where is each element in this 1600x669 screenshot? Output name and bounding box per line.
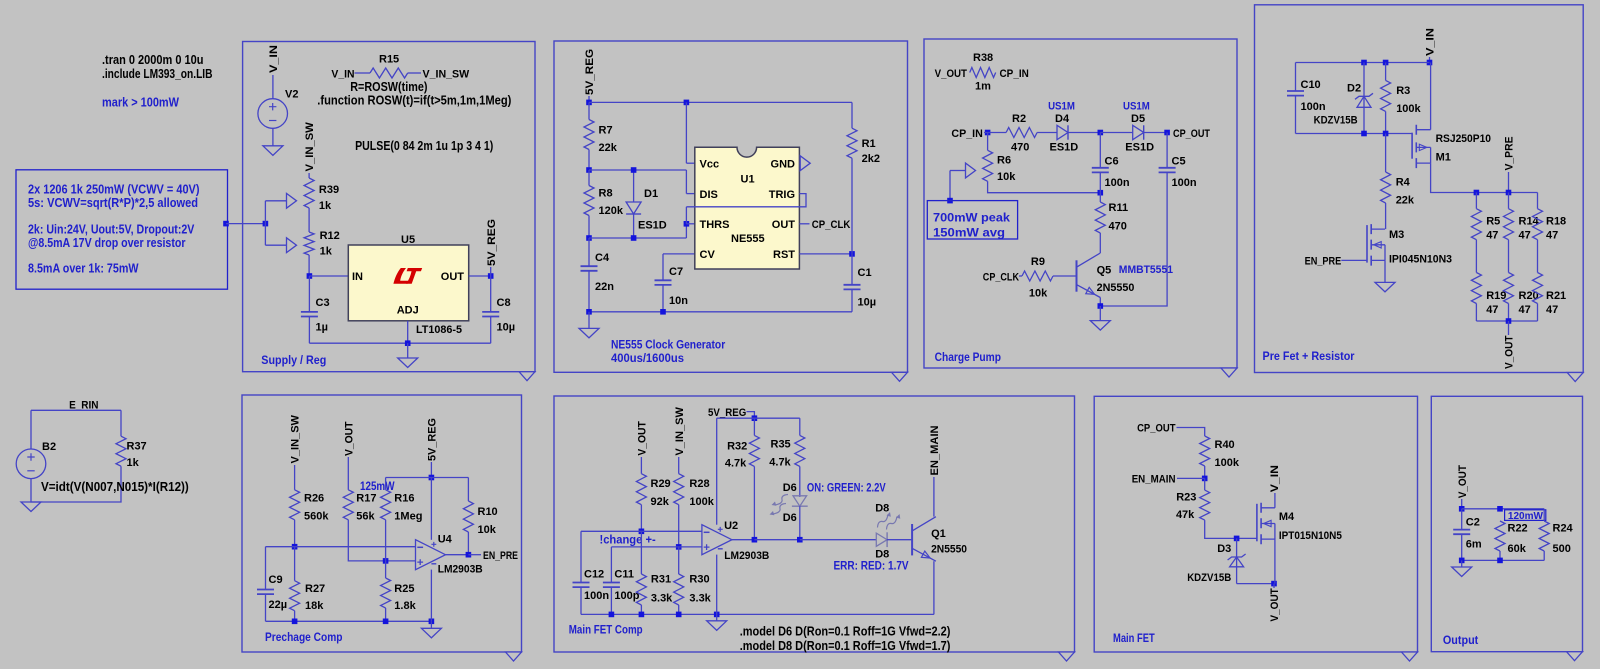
node ground rail (586, 309, 592, 315)
wire U4 vplus (430, 478, 432, 540)
wire (1461, 499, 1463, 509)
node U4 vminus (429, 619, 435, 625)
junction R32 bottom (752, 537, 758, 543)
wire U2 vplus (716, 418, 718, 525)
note box resistor rating (16, 170, 228, 289)
svg-text:8.5mA over 1k: 75mW: 8.5mA over 1k: 75mW (28, 262, 139, 276)
wire E_RIN top (31, 409, 121, 411)
wire (588, 96, 590, 102)
resistor R1 (847, 102, 880, 165)
section box Pre Fet + Resistor (1255, 5, 1584, 373)
capacitor C8 (482, 297, 515, 334)
svg-text:100k: 100k (1215, 457, 1240, 469)
svg-text:V_IN: V_IN (331, 69, 354, 81)
svg-text:R8: R8 (599, 188, 613, 200)
junction D1 cathode (631, 235, 637, 241)
svg-text:100n: 100n (1172, 177, 1197, 189)
wire (685, 224, 687, 238)
svg-text:KDZV15B: KDZV15B (1187, 572, 1231, 584)
zener diode D3 KDZV15B (1187, 538, 1245, 584)
svg-text:D6: D6 (783, 512, 797, 524)
section box Charge Pump (924, 39, 1237, 368)
wire (430, 621, 432, 628)
wire (1177, 428, 1205, 437)
wire (663, 253, 695, 255)
wire (640, 457, 642, 474)
wire (1508, 172, 1510, 193)
svg-text:R17: R17 (356, 493, 376, 505)
wire ADJ to ground rail (407, 321, 409, 343)
svg-text:@8.5mA 17V drop over resistor: @8.5mA 17V drop over resistor (28, 236, 186, 250)
voltage source B2 (16, 449, 46, 479)
svg-text:MMBT5551: MMBT5551 (1119, 264, 1173, 276)
svg-text:47: 47 (1519, 304, 1531, 316)
wire (294, 547, 296, 581)
svg-text:US1M: US1M (1123, 101, 1150, 113)
svg-text:V_IN: V_IN (268, 45, 280, 73)
svg-text:500: 500 (1553, 543, 1571, 555)
svg-text:R27: R27 (305, 583, 325, 595)
svg-text:V_IN_SW: V_IN_SW (290, 414, 302, 463)
junction C11 bottom (609, 612, 615, 618)
svg-text:R2: R2 (1012, 113, 1026, 125)
svg-text:R16: R16 (394, 493, 414, 505)
svg-text:4.7k: 4.7k (725, 458, 747, 470)
ground (579, 328, 599, 338)
wire (580, 531, 582, 582)
wire (984, 132, 1006, 134)
svg-text:CV: CV (700, 249, 716, 261)
svg-text:R12: R12 (320, 230, 340, 242)
resistor R30 (674, 547, 712, 605)
wire (308, 208, 310, 232)
wire top rail output (1462, 508, 1545, 510)
svg-text:R6: R6 (997, 155, 1011, 167)
resistor R24 (1539, 509, 1573, 555)
node Q5 emitter (1098, 303, 1104, 309)
wire (799, 418, 801, 435)
svg-text:V_IN_SW: V_IN_SW (674, 406, 686, 455)
wire (467, 532, 469, 555)
svg-text:1Meg: 1Meg (394, 511, 422, 523)
wire (950, 170, 966, 172)
wire THRS pin stub (686, 223, 694, 225)
svg-text:R25: R25 (394, 583, 414, 595)
svg-text:.model D8 D(Ron=0.1 Roff=1G Vf: .model D8 D(Ron=0.1 Roff=1G Vfwd=1.7) (740, 639, 951, 653)
resistor R22 (1495, 521, 1528, 555)
svg-text:5V_REG: 5V_REG (427, 418, 439, 461)
svg-text:R4: R4 (1396, 177, 1411, 189)
svg-text:C9: C9 (269, 574, 283, 586)
junction R22 bottom (1497, 558, 1503, 564)
svg-text:22µ: 22µ (269, 599, 288, 611)
resistor R40 (1200, 436, 1240, 469)
junction D2 top (1361, 60, 1367, 66)
node note-box tap (223, 221, 229, 227)
capacitor C5 (1159, 133, 1197, 190)
node ADJ ground (405, 340, 411, 346)
junction R5 top (1474, 190, 1480, 196)
capacitor C7 (655, 254, 695, 307)
resistor R25 (381, 561, 417, 612)
wire U2 out (732, 539, 755, 541)
capacitor C4 (581, 238, 615, 293)
svg-text:R28: R28 (689, 478, 709, 490)
section box Output (1431, 396, 1582, 651)
svg-text:Main FET Comp: Main FET Comp (569, 625, 643, 637)
svg-text:22k: 22k (1396, 195, 1415, 207)
wire (1205, 520, 1257, 538)
svg-text:ON: GREEN: 2.2V: ON: GREEN: 2.2V (807, 483, 886, 495)
wire (949, 171, 951, 201)
node plus U2 (676, 544, 682, 550)
LED D6 (770, 482, 808, 524)
svg-text:TRIG: TRIG (769, 189, 795, 201)
svg-text:1m: 1m (975, 81, 991, 93)
node V_IN rail (1427, 60, 1433, 66)
svg-text:D4: D4 (1055, 113, 1070, 125)
wire (294, 611, 296, 622)
mosfet M4 IPT015N10N5 (1257, 503, 1342, 545)
svg-text:U4: U4 (438, 534, 453, 546)
wire M4 source down (1274, 538, 1276, 583)
ground (263, 146, 283, 156)
wire (1537, 304, 1539, 322)
wire (588, 102, 590, 119)
svg-text:R37: R37 (127, 441, 147, 453)
ground (421, 628, 441, 638)
wire (309, 342, 490, 344)
wire (1385, 63, 1387, 81)
wire plus row U2 (611, 546, 702, 548)
node 5V rail (752, 415, 758, 421)
svg-text:R5: R5 (1486, 216, 1500, 228)
resistor R28 (674, 474, 715, 508)
svg-text:mark > 100mW: mark > 100mW (102, 96, 179, 110)
voltage source V2 (258, 99, 288, 129)
capacitor C11 (603, 547, 640, 602)
note box 700mW peak (927, 201, 1017, 239)
wire (1508, 321, 1510, 335)
svg-text:V_OUT: V_OUT (1457, 465, 1469, 499)
svg-text:47: 47 (1546, 230, 1558, 242)
resistor R26 (290, 490, 330, 523)
svg-text:10k: 10k (1029, 288, 1048, 300)
transistor Q5 2N5550 (1077, 253, 1135, 298)
wire Vcc pin stub (686, 162, 694, 164)
svg-text:R24: R24 (1553, 523, 1574, 535)
node top rail left (586, 100, 592, 106)
svg-text:47k: 47k (1176, 509, 1195, 521)
wire (1475, 193, 1477, 209)
svg-text:C4: C4 (595, 252, 610, 264)
wire (588, 271, 590, 312)
svg-text:R9: R9 (1031, 256, 1045, 268)
svg-text:D5: D5 (1131, 113, 1145, 125)
svg-text:10µ: 10µ (858, 297, 877, 309)
svg-text:V_OUT: V_OUT (343, 421, 355, 456)
wire 5V rail (717, 417, 800, 419)
svg-text:NE555: NE555 (731, 233, 765, 245)
svg-text:V_IN: V_IN (1269, 465, 1281, 492)
svg-text:V_OUT: V_OUT (935, 68, 968, 80)
wire to Vcc (685, 102, 687, 163)
svg-text:2N5550: 2N5550 (1097, 282, 1135, 294)
node R1/C1 (849, 251, 855, 257)
port flag at R6 (966, 163, 976, 178)
wire (1385, 111, 1387, 133)
svg-text:LM2903B: LM2903B (724, 550, 769, 562)
svg-text:C2: C2 (1466, 516, 1480, 528)
wire (272, 75, 274, 99)
svg-text:400us/1600us: 400us/1600us (611, 353, 684, 365)
svg-text:D2: D2 (1347, 83, 1361, 95)
svg-text:120k: 120k (599, 205, 624, 217)
node V_OUT rail (1459, 506, 1465, 512)
wire (1475, 240, 1477, 273)
svg-text:.function ROSW(t)=if(t>5m,1m,1: .function ROSW(t)=if(t>5m,1m,1Meg) (317, 94, 511, 108)
LT logo (393, 268, 408, 284)
wire bottom return (31, 466, 121, 502)
wire (1204, 478, 1206, 490)
wire (588, 216, 590, 239)
transistor Q1 2N5550 (912, 517, 967, 562)
wire (1100, 172, 1167, 306)
svg-text:CP_OUT: CP_OUT (1137, 423, 1176, 435)
svg-text:10n: 10n (669, 295, 688, 307)
wire (800, 539, 877, 541)
wire (1295, 63, 1297, 92)
svg-text:IPT015N10N5: IPT015N10N5 (1279, 530, 1342, 542)
svg-text:PULSE(0 84 2m 1u 1p 3 4 1): PULSE(0 84 2m 1u 1p 3 4 1) (355, 139, 493, 153)
wire (753, 418, 755, 435)
svg-text:EN_PRE: EN_PRE (483, 550, 518, 562)
wire (1475, 304, 1477, 322)
svg-text:R11: R11 (1109, 202, 1129, 214)
wire (640, 505, 642, 532)
section box Prechage Comp (242, 395, 522, 652)
svg-text:C8: C8 (497, 297, 511, 309)
wire (588, 312, 590, 329)
wire M3 source down (1384, 260, 1386, 282)
resistor R17 (343, 490, 376, 523)
capacitor C12 (573, 531, 610, 602)
svg-text:V=idt(V(N007,N015)*I(R12)): V=idt(V(N007,N015)*I(R12)) (41, 480, 189, 494)
svg-text:OUT: OUT (772, 219, 796, 231)
capacitor C3 (301, 297, 330, 334)
wire R9 to base (1053, 275, 1077, 277)
wire ground rail (266, 620, 432, 622)
svg-text:R15: R15 (379, 54, 399, 66)
resistor R27 (290, 547, 326, 612)
svg-text:DIS: DIS (700, 189, 718, 201)
wire (1537, 193, 1539, 209)
wire (1237, 583, 1274, 585)
wire plus row (348, 520, 415, 561)
wire (308, 173, 310, 178)
ground (1090, 321, 1110, 331)
wire (588, 170, 590, 186)
svg-text:5V_REG: 5V_REG (584, 49, 596, 95)
svg-text:Prechage Comp: Prechage Comp (265, 632, 343, 644)
junction (263, 221, 269, 227)
wire Q1 emitter (933, 561, 935, 614)
wire (1295, 96, 1297, 134)
svg-text:Supply / Reg: Supply / Reg (261, 355, 326, 367)
svg-text:B2: B2 (42, 441, 56, 453)
wire (308, 317, 310, 344)
svg-text:IPI045N10N3: IPI045N10N3 (1389, 254, 1452, 266)
wire (264, 201, 266, 245)
svg-text:ES1D: ES1D (1050, 142, 1079, 154)
junction D6 bottom (797, 537, 803, 543)
wire (589, 237, 686, 239)
node minus U2 (639, 529, 645, 535)
junction R3 top (1383, 60, 1389, 66)
wire (589, 169, 686, 171)
resistor R16 (381, 478, 423, 523)
node minus input (292, 544, 298, 550)
svg-text:Output: Output (1443, 635, 1479, 647)
port flag upper (287, 193, 297, 208)
wire (490, 317, 492, 344)
svg-text:100n: 100n (1105, 177, 1130, 189)
wire (851, 102, 853, 128)
wire (678, 457, 680, 474)
ground (1375, 282, 1395, 292)
svg-text:2x 1206 1k 250mW (VCWV = 40V): 2x 1206 1k 250mW (VCWV = 40V) (28, 183, 200, 197)
svg-text:ES1D: ES1D (638, 220, 667, 232)
wire to DIS (685, 170, 687, 194)
svg-text:V_IN_SW: V_IN_SW (304, 122, 316, 172)
resistor R15 (355, 54, 422, 79)
wire (294, 465, 296, 490)
resistor R5 (1471, 193, 1500, 242)
wire (678, 547, 680, 574)
wire (430, 462, 432, 478)
svg-text:R38: R38 (973, 52, 993, 64)
svg-text:Charge Pump: Charge Pump (935, 352, 1001, 364)
svg-text:CP_OUT: CP_OUT (1173, 128, 1210, 140)
resistor R38 (970, 52, 996, 93)
svg-text:1k: 1k (319, 200, 332, 212)
node V_PRE (1506, 190, 1512, 196)
wire (851, 158, 853, 254)
op-amp U4 LM2903B (416, 534, 483, 576)
resistor R9 (1022, 256, 1053, 300)
node U2 ground (714, 612, 720, 618)
svg-text:R29: R29 (651, 478, 671, 490)
wire (747, 412, 755, 419)
diode D1 ES1D (626, 170, 667, 238)
svg-text:R23: R23 (1176, 492, 1196, 504)
capacitor C1 (844, 254, 877, 309)
capacitor C2 (1453, 509, 1482, 551)
wire (490, 267, 492, 276)
wire (1508, 193, 1510, 209)
wire minus row U2 (581, 530, 702, 532)
svg-text:470: 470 (1011, 142, 1029, 154)
svg-text:R19: R19 (1486, 290, 1506, 302)
svg-text:470: 470 (1109, 221, 1127, 233)
svg-text:D1: D1 (644, 188, 658, 200)
wire (1429, 57, 1431, 63)
node V_OUT array (1506, 318, 1512, 324)
wire (1099, 306, 1101, 321)
wire U2 vminus (716, 555, 718, 615)
wire EN_PRE to gate (1341, 259, 1367, 261)
svg-text:1µ: 1µ (316, 322, 328, 334)
wire 5V tap rail (386, 477, 469, 479)
svg-text:R35: R35 (771, 439, 791, 451)
wire (1543, 551, 1545, 560)
resistor R21 (1533, 273, 1567, 317)
wire bottom rail output (1462, 559, 1545, 561)
resistor R11 (1095, 193, 1128, 233)
svg-text:M3: M3 (1389, 229, 1404, 241)
wire TRIG loop (686, 194, 806, 207)
wire (716, 614, 718, 620)
svg-text:700mW peak: 700mW peak (933, 211, 1010, 225)
port flag lower (287, 238, 297, 253)
svg-text:U5: U5 (401, 234, 415, 246)
svg-text:M4: M4 (1279, 511, 1295, 523)
svg-text:R14: R14 (1519, 216, 1540, 228)
wire array top rail (1476, 192, 1537, 194)
svg-text:ADJ: ADJ (397, 305, 419, 317)
junction D2 bottom (1361, 131, 1367, 137)
wire gate rail (1296, 133, 1413, 135)
wire (851, 254, 853, 285)
svg-text:100n: 100n (1301, 101, 1326, 113)
wire (588, 150, 590, 171)
wire array bottom rail (1476, 320, 1537, 322)
svg-text:V_IN: V_IN (1425, 28, 1437, 56)
svg-text:ES1D: ES1D (1125, 142, 1154, 154)
timer U1 NE555 (695, 147, 800, 269)
svg-text:LM2903B: LM2903B (438, 564, 483, 576)
wire M1 source to V_IN (1430, 63, 1432, 130)
svg-text:RSJ250P10: RSJ250P10 (1436, 133, 1491, 145)
resistor R14 (1504, 193, 1540, 242)
svg-text:V_PRE: V_PRE (1504, 137, 1516, 171)
svg-text:Vcc: Vcc (700, 158, 720, 170)
node 5V_REG (488, 273, 494, 279)
svg-text:R21: R21 (1546, 290, 1566, 302)
regulator U5 LT1086-5 (348, 234, 468, 336)
op-amp U2 LM2903B (702, 520, 769, 562)
svg-text:C10: C10 (1301, 79, 1321, 91)
svg-text:560k: 560k (304, 511, 329, 523)
wire (678, 505, 680, 547)
wire (1508, 304, 1510, 322)
section box Main FET (1094, 396, 1417, 652)
svg-text:Pre Fet + Resistor: Pre Fet + Resistor (1263, 351, 1355, 363)
wire U4 bottom (430, 570, 432, 622)
wire (309, 275, 348, 277)
wire Q1 collector (933, 477, 935, 517)
wire (294, 520, 296, 547)
wire RST to R1/C1 (799, 253, 852, 255)
wire (1543, 509, 1545, 521)
svg-text:THRS: THRS (700, 219, 730, 231)
diode D4 (1050, 113, 1079, 154)
wire (1099, 172, 1101, 192)
junction D1 anode (631, 167, 637, 173)
svg-text:EN_MAIN: EN_MAIN (1132, 474, 1176, 486)
svg-text:C1: C1 (858, 267, 872, 279)
node D3 top (1234, 536, 1240, 542)
